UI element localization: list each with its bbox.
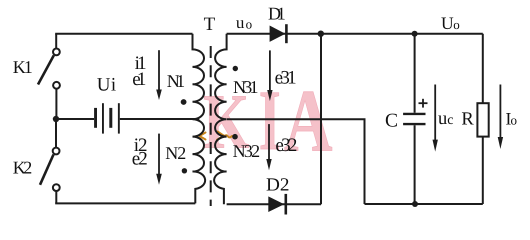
watermark KIA <box>203 72 332 170</box>
arrow i1 e1 <box>158 50 160 90</box>
svg-text:C: C <box>385 110 398 131</box>
orange annotation squiggle <box>200 132 233 140</box>
svg-text:N31: N31 <box>233 77 259 97</box>
switch K2 <box>55 119 57 148</box>
svg-text:U: U <box>441 13 454 33</box>
svg-text:D2: D2 <box>266 175 290 195</box>
resistor R <box>482 34 484 104</box>
wire: top-left rail <box>55 33 192 35</box>
svg-text:K2: K2 <box>13 158 33 178</box>
node: junction top C <box>412 31 418 37</box>
diode D1 <box>270 26 286 42</box>
svg-text:u: u <box>236 13 245 32</box>
wire: bottom-left rail <box>55 202 195 204</box>
diode D2 <box>268 196 284 212</box>
svg-text:e32: e32 <box>275 135 297 156</box>
arrow e32 <box>268 124 270 160</box>
svg-text:e2: e2 <box>132 148 148 169</box>
label plus <box>419 99 428 108</box>
node: N31 polarity dot <box>233 66 238 71</box>
svg-text:e1: e1 <box>132 69 146 90</box>
arrow e31 <box>269 50 271 91</box>
arrow i2 e2 <box>158 134 160 175</box>
svg-text:D1: D1 <box>268 3 286 23</box>
node: junction bottom C <box>412 201 418 207</box>
wire: bottom-right rail <box>365 203 483 205</box>
svg-text:o: o <box>453 17 460 32</box>
svg-text:e31: e31 <box>275 67 297 88</box>
switch K1 <box>55 34 57 49</box>
node: battery junction <box>53 116 59 122</box>
wire: cathode vertical <box>320 34 322 205</box>
wire: battery to primary center tap <box>120 118 200 120</box>
arrow Io <box>499 85 501 139</box>
svg-text:o: o <box>246 17 253 32</box>
svg-text:o: o <box>511 112 518 127</box>
transformer core <box>210 46 212 206</box>
svg-text:Ui: Ui <box>97 74 117 95</box>
arrow uc <box>434 85 436 141</box>
node: N32 polarity dot <box>232 134 238 140</box>
svg-text:u: u <box>438 109 447 129</box>
wire: secondary bottom to D2 <box>227 203 321 205</box>
transformer secondary winding N31 N32 <box>214 34 226 205</box>
capacitor C <box>414 34 416 113</box>
node: junction D1 cathode <box>318 31 324 37</box>
svg-text:T: T <box>204 14 216 35</box>
wire: secondary center tap <box>227 119 365 204</box>
svg-text:N32: N32 <box>233 141 261 161</box>
node: N2 polarity dot <box>182 168 187 173</box>
transformer primary winding N1 N2 <box>193 34 206 204</box>
node: N1 polarity dot <box>181 99 187 105</box>
svg-text:N1: N1 <box>167 71 185 91</box>
svg-text:K1: K1 <box>13 57 33 77</box>
wire: junction to battery <box>56 118 94 120</box>
svg-text:R: R <box>461 109 474 129</box>
wire: secondary top to D1 and top-right rail <box>227 33 483 35</box>
battery Ui <box>94 108 97 128</box>
svg-text:c: c <box>447 113 453 128</box>
svg-text:N2: N2 <box>165 143 186 163</box>
